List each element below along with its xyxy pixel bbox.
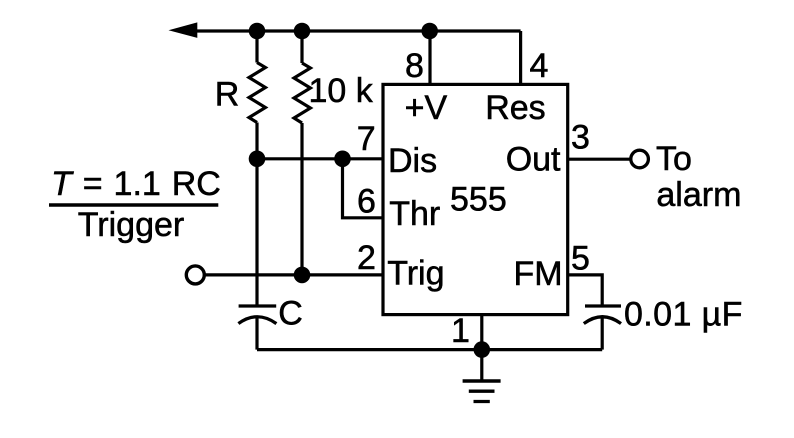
svg-text:Out: Out bbox=[506, 141, 561, 179]
svg-text:0.01 µF: 0.01 µF bbox=[624, 295, 743, 333]
wire 10k branch top bbox=[300, 31, 303, 63]
wire top +V rail bbox=[183, 29, 521, 32]
wire pin 8 vertical bbox=[428, 31, 431, 84]
svg-text:2: 2 bbox=[357, 239, 376, 277]
wire Trig pin 2 horizontal bbox=[205, 273, 383, 276]
resistor 10k bbox=[294, 63, 310, 123]
wire R bottom down to capacitor C bbox=[255, 123, 258, 307]
svg-text:7: 7 bbox=[357, 120, 376, 158]
svg-text:C: C bbox=[278, 295, 303, 333]
node junction top rail at pin 8 bbox=[421, 23, 438, 40]
wire Dis pin 7 horizontal bbox=[257, 157, 383, 160]
svg-text:Trig: Trig bbox=[387, 255, 444, 293]
svg-text:T = 1.1 RC: T = 1.1 RC bbox=[51, 165, 221, 203]
op-amp U1 555 timer box bbox=[383, 84, 568, 314]
wire capacitor C to ground rail bbox=[255, 317, 258, 350]
wire Thr pin 6 branch bbox=[343, 159, 384, 218]
svg-text:alarm: alarm bbox=[656, 176, 741, 214]
node junction trigger at 10k bbox=[294, 267, 311, 284]
svg-text:Thr: Thr bbox=[389, 195, 440, 233]
wire bottom ground rail bbox=[257, 348, 602, 351]
capacitor C bbox=[238, 306, 276, 324]
svg-text:6: 6 bbox=[357, 182, 376, 220]
svg-text:R: R bbox=[215, 75, 240, 113]
wire 10k bottom down to trigger line bbox=[300, 123, 303, 275]
terminal trigger input bbox=[186, 266, 204, 284]
node junction top rail at R bbox=[249, 23, 266, 40]
svg-text:4: 4 bbox=[530, 47, 549, 85]
svg-text:10 k: 10 k bbox=[309, 72, 374, 110]
svg-text:5: 5 bbox=[571, 240, 590, 278]
svg-text:Dis: Dis bbox=[388, 142, 437, 180]
capacitor 0.01 uF bbox=[584, 306, 621, 324]
formula underline bbox=[49, 203, 218, 206]
wire FM pin 5 to capacitor bbox=[568, 275, 603, 306]
wire pin 1 vertical bbox=[480, 315, 483, 350]
node junction top rail at 10k bbox=[294, 23, 311, 40]
ground bbox=[463, 350, 501, 402]
svg-text:+V: +V bbox=[405, 89, 448, 127]
terminal output to alarm bbox=[631, 150, 649, 168]
wire pin 4 vertical bbox=[519, 31, 522, 84]
svg-text:FM: FM bbox=[514, 255, 563, 293]
wire capacitor 0.01uF to ground rail bbox=[601, 317, 604, 350]
node junction Dis at R bbox=[249, 151, 266, 168]
svg-text:1: 1 bbox=[451, 312, 470, 350]
svg-text:3: 3 bbox=[571, 119, 590, 157]
resistor R bbox=[249, 63, 265, 123]
svg-text:To: To bbox=[656, 140, 692, 178]
svg-text:Trigger: Trigger bbox=[78, 206, 184, 244]
svg-text:Res: Res bbox=[485, 89, 545, 127]
wire Out pin 3 horizontal bbox=[568, 158, 630, 161]
node junction ground rail at pin 1 bbox=[474, 341, 491, 358]
arrowhead on +V rail pointing left bbox=[169, 22, 198, 38]
node junction Dis-Thr branch bbox=[334, 151, 351, 168]
wire R branch top bbox=[255, 31, 258, 63]
svg-text:8: 8 bbox=[405, 47, 424, 85]
svg-text:555: 555 bbox=[450, 180, 507, 218]
